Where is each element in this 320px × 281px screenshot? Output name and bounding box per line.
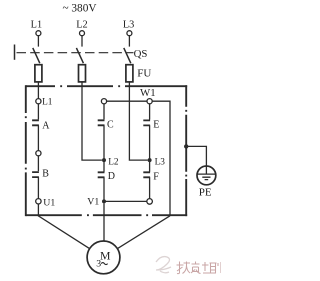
wire mid circle to link B (37, 156, 39, 171)
switch QS linkage end tick (14, 45, 16, 60)
wire link C to L2 node (103, 125, 105, 160)
terminal circle L1 supply (36, 31, 41, 36)
wire W1 circle to link E (149, 104, 151, 120)
enclosure boundary right edge (185, 85, 187, 216)
wire fuse3 feeder down (129, 82, 147, 160)
switch QS blade pole 2 (76, 48, 83, 63)
svg-text:QS: QS (134, 48, 148, 60)
svg-text:E: E (153, 120, 159, 131)
motor M circle (87, 241, 120, 274)
svg-text:B: B (42, 169, 49, 180)
terminal circle L1 in box (36, 99, 41, 104)
link F (143, 172, 150, 177)
earth electrode PE circle (197, 166, 216, 185)
wire L3 node to link F (149, 160, 151, 172)
svg-text:L1: L1 (31, 20, 42, 31)
fuse FU pole 1 (35, 65, 42, 82)
fuse FU pole 2 (79, 65, 86, 82)
switch QS linkage dashed line (17, 52, 134, 54)
watermark text (177, 262, 222, 274)
wire link A to mid circle (37, 125, 39, 150)
wire link B to U1 (37, 177, 39, 199)
svg-text:L2: L2 (76, 20, 87, 31)
link D (98, 172, 105, 177)
switch QS blade pole 3 (124, 48, 131, 63)
earth symbol inside PE (198, 166, 215, 180)
wire middle circle to link C (103, 104, 105, 120)
terminal circle L3 supply (127, 31, 132, 36)
link B (32, 172, 39, 177)
svg-text:V1: V1 (87, 197, 99, 208)
svg-text:L1: L1 (42, 98, 53, 108)
watermark logo (156, 257, 171, 273)
wire fuse1 to L1 terminal (37, 82, 39, 99)
terminal circle top of middle column (101, 99, 106, 104)
wire W1 circle to right edge (152, 101, 170, 216)
wire link D to V1 node (103, 177, 105, 201)
svg-text:L3: L3 (123, 20, 134, 31)
wire link E to L3 node (149, 125, 151, 160)
wire L1 to link A (37, 104, 39, 120)
wire L2 to switch (81, 36, 83, 47)
terminal circle L2 supply (80, 31, 85, 36)
link E (143, 120, 150, 125)
svg-text:~ 380V: ~ 380V (62, 2, 97, 14)
svg-text:FU: FU (137, 68, 151, 80)
junction dot V1 (102, 199, 106, 203)
wire fuse2 feeder down (82, 82, 102, 160)
wire L1 to switch (37, 36, 39, 47)
svg-text:C: C (107, 120, 114, 131)
wire L2 node to link D (103, 160, 105, 172)
terminal circle U1 (36, 199, 41, 204)
wire middle top circle to W1 circle (107, 100, 147, 102)
wire V1 to motor (103, 203, 105, 241)
label tilde of 3~ (101, 263, 107, 265)
terminal circle bottom of right column (147, 199, 153, 205)
switch QS blade pole 1 (33, 48, 40, 63)
junction dot L2 (102, 158, 106, 162)
svg-text:F: F (153, 171, 159, 182)
fuse FU pole 3 (126, 65, 133, 82)
svg-text:M: M (100, 249, 111, 263)
wire link F to bottom circle (149, 177, 151, 198)
link A (32, 120, 39, 125)
svg-text:W1: W1 (140, 87, 156, 99)
link C (98, 120, 105, 125)
wire L3 to switch (128, 36, 130, 47)
enclosure boundary bottom edge (26, 214, 188, 216)
svg-text:U1: U1 (43, 198, 55, 209)
svg-text:L3: L3 (155, 157, 166, 167)
svg-text:L2: L2 (108, 157, 119, 167)
junction dot PE tap on enclosure (184, 144, 188, 148)
wire U1 to motor (38, 204, 89, 249)
junction dot L3 (148, 158, 152, 162)
enclosure boundary left edge (25, 85, 27, 216)
wire V1 to right bottom circle (104, 200, 147, 202)
svg-text:3: 3 (96, 259, 101, 270)
wire PE branch (186, 146, 206, 166)
svg-text:PE: PE (199, 187, 212, 199)
terminal circle mid left column (36, 151, 41, 156)
enclosure boundary top edge (26, 85, 188, 87)
svg-text:A: A (42, 121, 50, 132)
wire W1 side to motor (117, 216, 170, 249)
terminal circle W1 (147, 99, 152, 104)
svg-text:D: D (108, 171, 115, 182)
